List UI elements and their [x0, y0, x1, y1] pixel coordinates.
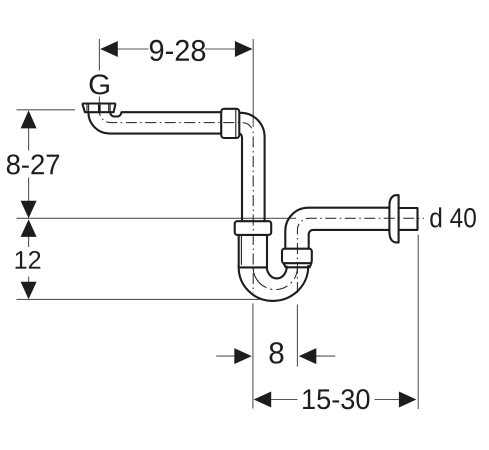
svg-text:8: 8 — [268, 336, 285, 370]
svg-text:d 40: d 40 — [429, 202, 477, 233]
svg-text:12: 12 — [14, 247, 42, 275]
svg-text:9-28: 9-28 — [148, 35, 206, 68]
svg-text:15-30: 15-30 — [301, 384, 371, 416]
svg-text:8-27: 8-27 — [6, 149, 61, 181]
svg-text:G: G — [88, 69, 111, 101]
